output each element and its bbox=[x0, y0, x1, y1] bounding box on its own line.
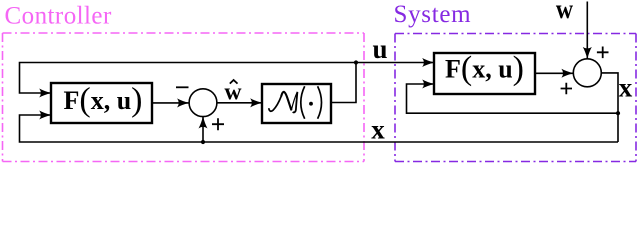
svg-text:System: System bbox=[394, 1, 472, 28]
svg-text:F(x, u): F(x, u) bbox=[63, 82, 142, 119]
svg-text:w: w bbox=[556, 0, 574, 24]
svg-text:F(x, u): F(x, u) bbox=[445, 50, 524, 87]
svg-text:x: x bbox=[619, 73, 633, 103]
svg-text:u: u bbox=[372, 34, 387, 64]
svg-text:w: w bbox=[224, 80, 242, 106]
svg-text:Controller: Controller bbox=[5, 2, 112, 29]
svg-text:x: x bbox=[371, 115, 385, 145]
